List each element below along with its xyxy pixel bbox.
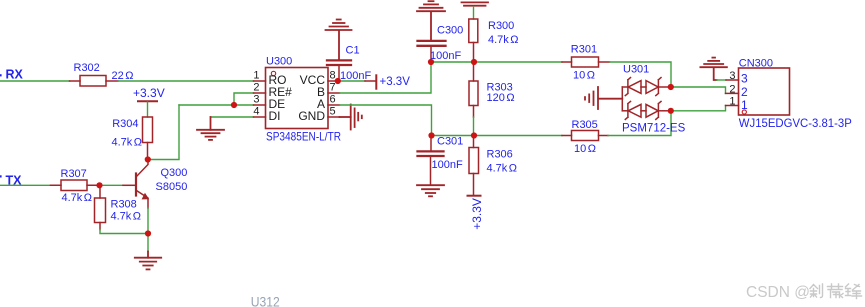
svg-text:3: 3 bbox=[729, 70, 735, 82]
svg-text:R307: R307 bbox=[61, 168, 87, 180]
wire B rail C300 to R300 bbox=[431, 61, 474, 63]
node junction R300/B rail bbox=[471, 59, 477, 65]
wire B rail to R301 bbox=[474, 61, 562, 63]
svg-text:2: 2 bbox=[741, 85, 748, 99]
wire R303 to A rail bbox=[473, 117, 475, 136]
wire base bbox=[100, 184, 124, 186]
node junction R304/Q300 collector bbox=[145, 156, 151, 162]
svg-text:4.7kΩ: 4.7kΩ bbox=[111, 136, 142, 148]
wire A rail C301 to R306 bbox=[432, 135, 475, 137]
connector CN300 bbox=[739, 58, 852, 130]
node TX port stub bbox=[0, 175, 2, 177]
svg-text:U301: U301 bbox=[623, 64, 649, 76]
svg-text:GND: GND bbox=[298, 109, 325, 123]
svg-text:R305: R305 bbox=[572, 119, 598, 131]
wire pin6 A down riser bbox=[340, 105, 432, 136]
svg-text:1: 1 bbox=[729, 96, 735, 108]
resistor R307 bbox=[51, 180, 100, 191]
svg-text:WJ15EDGVC-3.81-3P: WJ15EDGVC-3.81-3P bbox=[739, 116, 852, 130]
wire R305 to U301 row2 bbox=[608, 111, 671, 136]
svg-text:C300: C300 bbox=[437, 25, 463, 37]
svg-text:R304: R304 bbox=[112, 118, 138, 130]
svg-text:C301: C301 bbox=[437, 136, 463, 148]
wire row2 to CN300 pin1 bbox=[671, 106, 726, 111]
svg-text:4.7kΩ: 4.7kΩ bbox=[111, 211, 142, 223]
svg-text:10Ω: 10Ω bbox=[573, 70, 595, 82]
ground (U301 left, rotated) bbox=[585, 87, 622, 109]
svg-text:3: 3 bbox=[253, 94, 259, 106]
power +3.3V (R306 bottom) bbox=[468, 196, 484, 230]
wire DI to ground bbox=[211, 116, 254, 118]
U300 pin 7 B bbox=[328, 92, 340, 94]
node junction R307/R308/base bbox=[96, 182, 102, 188]
svg-text:4: 4 bbox=[253, 106, 259, 118]
wire R308 bottom to emitter junction bbox=[100, 230, 148, 234]
power +3.3V (R304 top) bbox=[133, 86, 165, 117]
svg-text:4.7kΩ: 4.7kΩ bbox=[487, 163, 518, 175]
svg-text:U312: U312 bbox=[251, 295, 280, 307]
U300 pin 4 DI bbox=[254, 116, 266, 118]
svg-text:CSDN @: CSDN @ bbox=[746, 284, 810, 301]
node junction pin8/C1 bbox=[335, 78, 341, 84]
svg-text:+3.3V: +3.3V bbox=[380, 76, 411, 88]
svg-text:100nF: 100nF bbox=[340, 70, 371, 82]
ground above C1 (inverted) bbox=[326, 20, 352, 60]
svg-text:SP3485EN-L/TR: SP3485EN-L/TR bbox=[266, 130, 341, 144]
svg-text:120Ω: 120Ω bbox=[487, 92, 515, 104]
ground (Q300 emitter) bbox=[135, 252, 161, 270]
wire pin8 to +3.3V bbox=[338, 80, 365, 82]
svg-text:2: 2 bbox=[729, 83, 735, 95]
capacitor C300 bbox=[418, 25, 464, 62]
U300 pin 2 RE# bbox=[254, 92, 266, 94]
svg-text:RX: RX bbox=[6, 67, 24, 81]
svg-text:1: 1 bbox=[741, 98, 748, 112]
wire ground to CN300 pin3 bbox=[717, 79, 727, 81]
svg-text:R301: R301 bbox=[571, 43, 597, 55]
ground (DI) bbox=[197, 117, 224, 140]
svg-text:R302: R302 bbox=[74, 62, 100, 74]
node junction emitter/R308 bbox=[145, 230, 151, 236]
svg-text:+3.3V: +3.3V bbox=[470, 198, 484, 230]
svg-text:+3.3V: +3.3V bbox=[133, 86, 165, 100]
svg-text:R306: R306 bbox=[487, 149, 513, 161]
svg-text:2: 2 bbox=[253, 82, 259, 94]
resistor R300 bbox=[469, 19, 519, 62]
svg-text:1: 1 bbox=[253, 70, 259, 82]
diode U301 (TVS PSM712-ES) bbox=[622, 64, 686, 135]
row 2 bbox=[622, 101, 671, 119]
CN300 pin 2 bbox=[726, 92, 739, 94]
svg-text:7: 7 bbox=[330, 82, 336, 94]
node junction U301 row1 bbox=[668, 84, 674, 90]
wire collector junction to DE/RE net bbox=[148, 105, 179, 160]
U300 pin 8 VCC bbox=[328, 80, 338, 82]
resistor R304 bbox=[111, 117, 152, 160]
svg-text:4.7kΩ: 4.7kΩ bbox=[62, 192, 93, 204]
node junction DE/RE bbox=[231, 102, 237, 108]
capacitor C1 bbox=[327, 44, 371, 82]
node junction U301 row2 bbox=[668, 108, 674, 114]
resistor R305 bbox=[562, 131, 608, 141]
capacitor C301 bbox=[418, 136, 464, 185]
svg-text:10Ω: 10Ω bbox=[574, 143, 596, 155]
CN300 pin 1 bbox=[726, 105, 739, 107]
transistor Q300 bbox=[123, 160, 187, 209]
U300 pin 3 DE bbox=[254, 104, 266, 106]
svg-text:4.7kΩ: 4.7kΩ bbox=[488, 34, 519, 46]
ground above CN300 (inverted) bbox=[700, 58, 727, 80]
wire junction to ground bbox=[147, 234, 149, 252]
svg-text:6: 6 bbox=[330, 94, 336, 106]
row 1 bbox=[622, 78, 671, 96]
U300 pin 5 GND bbox=[328, 116, 340, 118]
wire R302 to U300 pin1 bbox=[118, 80, 254, 82]
ground below C301 bbox=[417, 185, 444, 196]
ground (U300 pin5, rotated) bbox=[340, 105, 362, 130]
resistor R302 bbox=[70, 76, 119, 87]
resistor R306 bbox=[469, 136, 517, 196]
wire RE# branch bbox=[234, 93, 254, 105]
svg-text:Q300: Q300 bbox=[161, 167, 188, 179]
svg-text:DI: DI bbox=[269, 109, 281, 123]
svg-text:C1: C1 bbox=[346, 44, 360, 56]
power +3.3V (pin8) bbox=[365, 75, 410, 88]
wire emitter down bbox=[147, 208, 149, 234]
ground above R300 (inverted, cropped) bbox=[462, 2, 489, 19]
IC U300 SP3485EN-L/TR bbox=[266, 56, 342, 144]
wire TX to R307 bbox=[0, 184, 51, 186]
svg-text:100nF: 100nF bbox=[432, 159, 463, 171]
svg-text:8: 8 bbox=[330, 70, 336, 82]
ground above C300 (inverted) bbox=[417, 1, 445, 40]
svg-text:S8050: S8050 bbox=[156, 181, 188, 193]
CN300 pin 3 bbox=[726, 79, 739, 81]
svg-text:PSM712-ES: PSM712-ES bbox=[622, 123, 686, 135]
svg-text:5: 5 bbox=[330, 106, 336, 118]
svg-text:U300: U300 bbox=[266, 56, 292, 68]
wire pin7 B to left rail riser bbox=[340, 62, 432, 93]
wire R301 to U301 row1 bbox=[610, 62, 672, 87]
wire RX to R302 bbox=[0, 80, 70, 82]
node junction C300/B rail bbox=[428, 59, 434, 65]
svg-text:100nF: 100nF bbox=[430, 50, 461, 62]
node RX port stub bbox=[0, 74, 2, 76]
wire A rail to R305 bbox=[474, 135, 562, 137]
node junction R303/R306/A rail bbox=[471, 132, 477, 138]
svg-text:R300: R300 bbox=[488, 20, 514, 32]
resistor R303 bbox=[469, 62, 515, 117]
U300 pin 6 A bbox=[328, 104, 340, 106]
U300 pin 1 RO bbox=[254, 80, 266, 82]
wire row1 to CN300 pin2 bbox=[671, 87, 726, 93]
svg-text:R308: R308 bbox=[111, 198, 137, 210]
resistor R308 bbox=[95, 185, 142, 229]
svg-text:3: 3 bbox=[741, 72, 748, 86]
wire DE horizontal bbox=[179, 104, 254, 106]
node junction C301/A rail bbox=[428, 132, 434, 138]
resistor R301 bbox=[562, 57, 610, 67]
